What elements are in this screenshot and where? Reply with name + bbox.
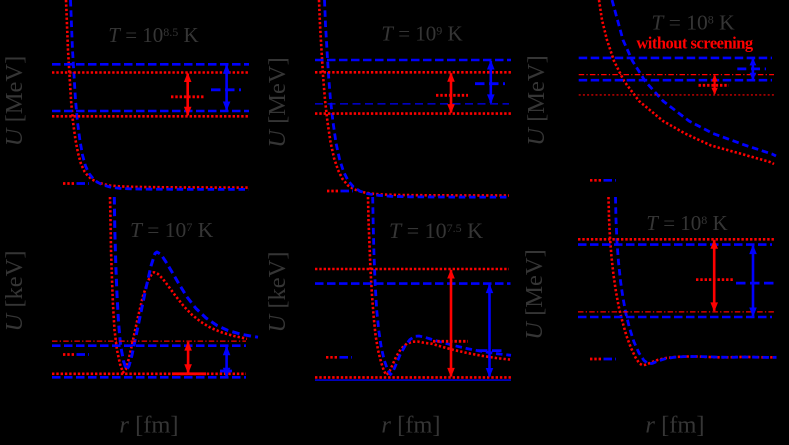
svg-text:without screening: without screening [636,34,754,53]
svg-text:U [keV]: U [keV] [264,252,291,333]
svg-text:r [fm]: r [fm] [119,412,178,439]
svg-text:U [MeV]: U [MeV] [264,57,291,148]
svg-text:T = 109 K: T = 109 K [381,22,462,46]
svg-text:U [MeV]: U [MeV] [521,249,548,340]
svg-text:U [keV]: U [keV] [1,251,28,332]
svg-text:T = 108 K: T = 108 K [646,211,727,235]
svg-text:T = 107 K: T = 107 K [130,218,214,242]
svg-text:U [MeV]: U [MeV] [1,56,28,147]
svg-text:r [fm]: r [fm] [645,412,704,439]
svg-text:T = 108.5 K: T = 108.5 K [108,23,198,47]
svg-text:r [fm]: r [fm] [381,412,440,439]
svg-text:U [MeV]: U [MeV] [523,55,550,146]
svg-text:T = 108 K: T = 108 K [651,11,735,35]
svg-text:T = 107.5 K: T = 107.5 K [389,218,483,243]
